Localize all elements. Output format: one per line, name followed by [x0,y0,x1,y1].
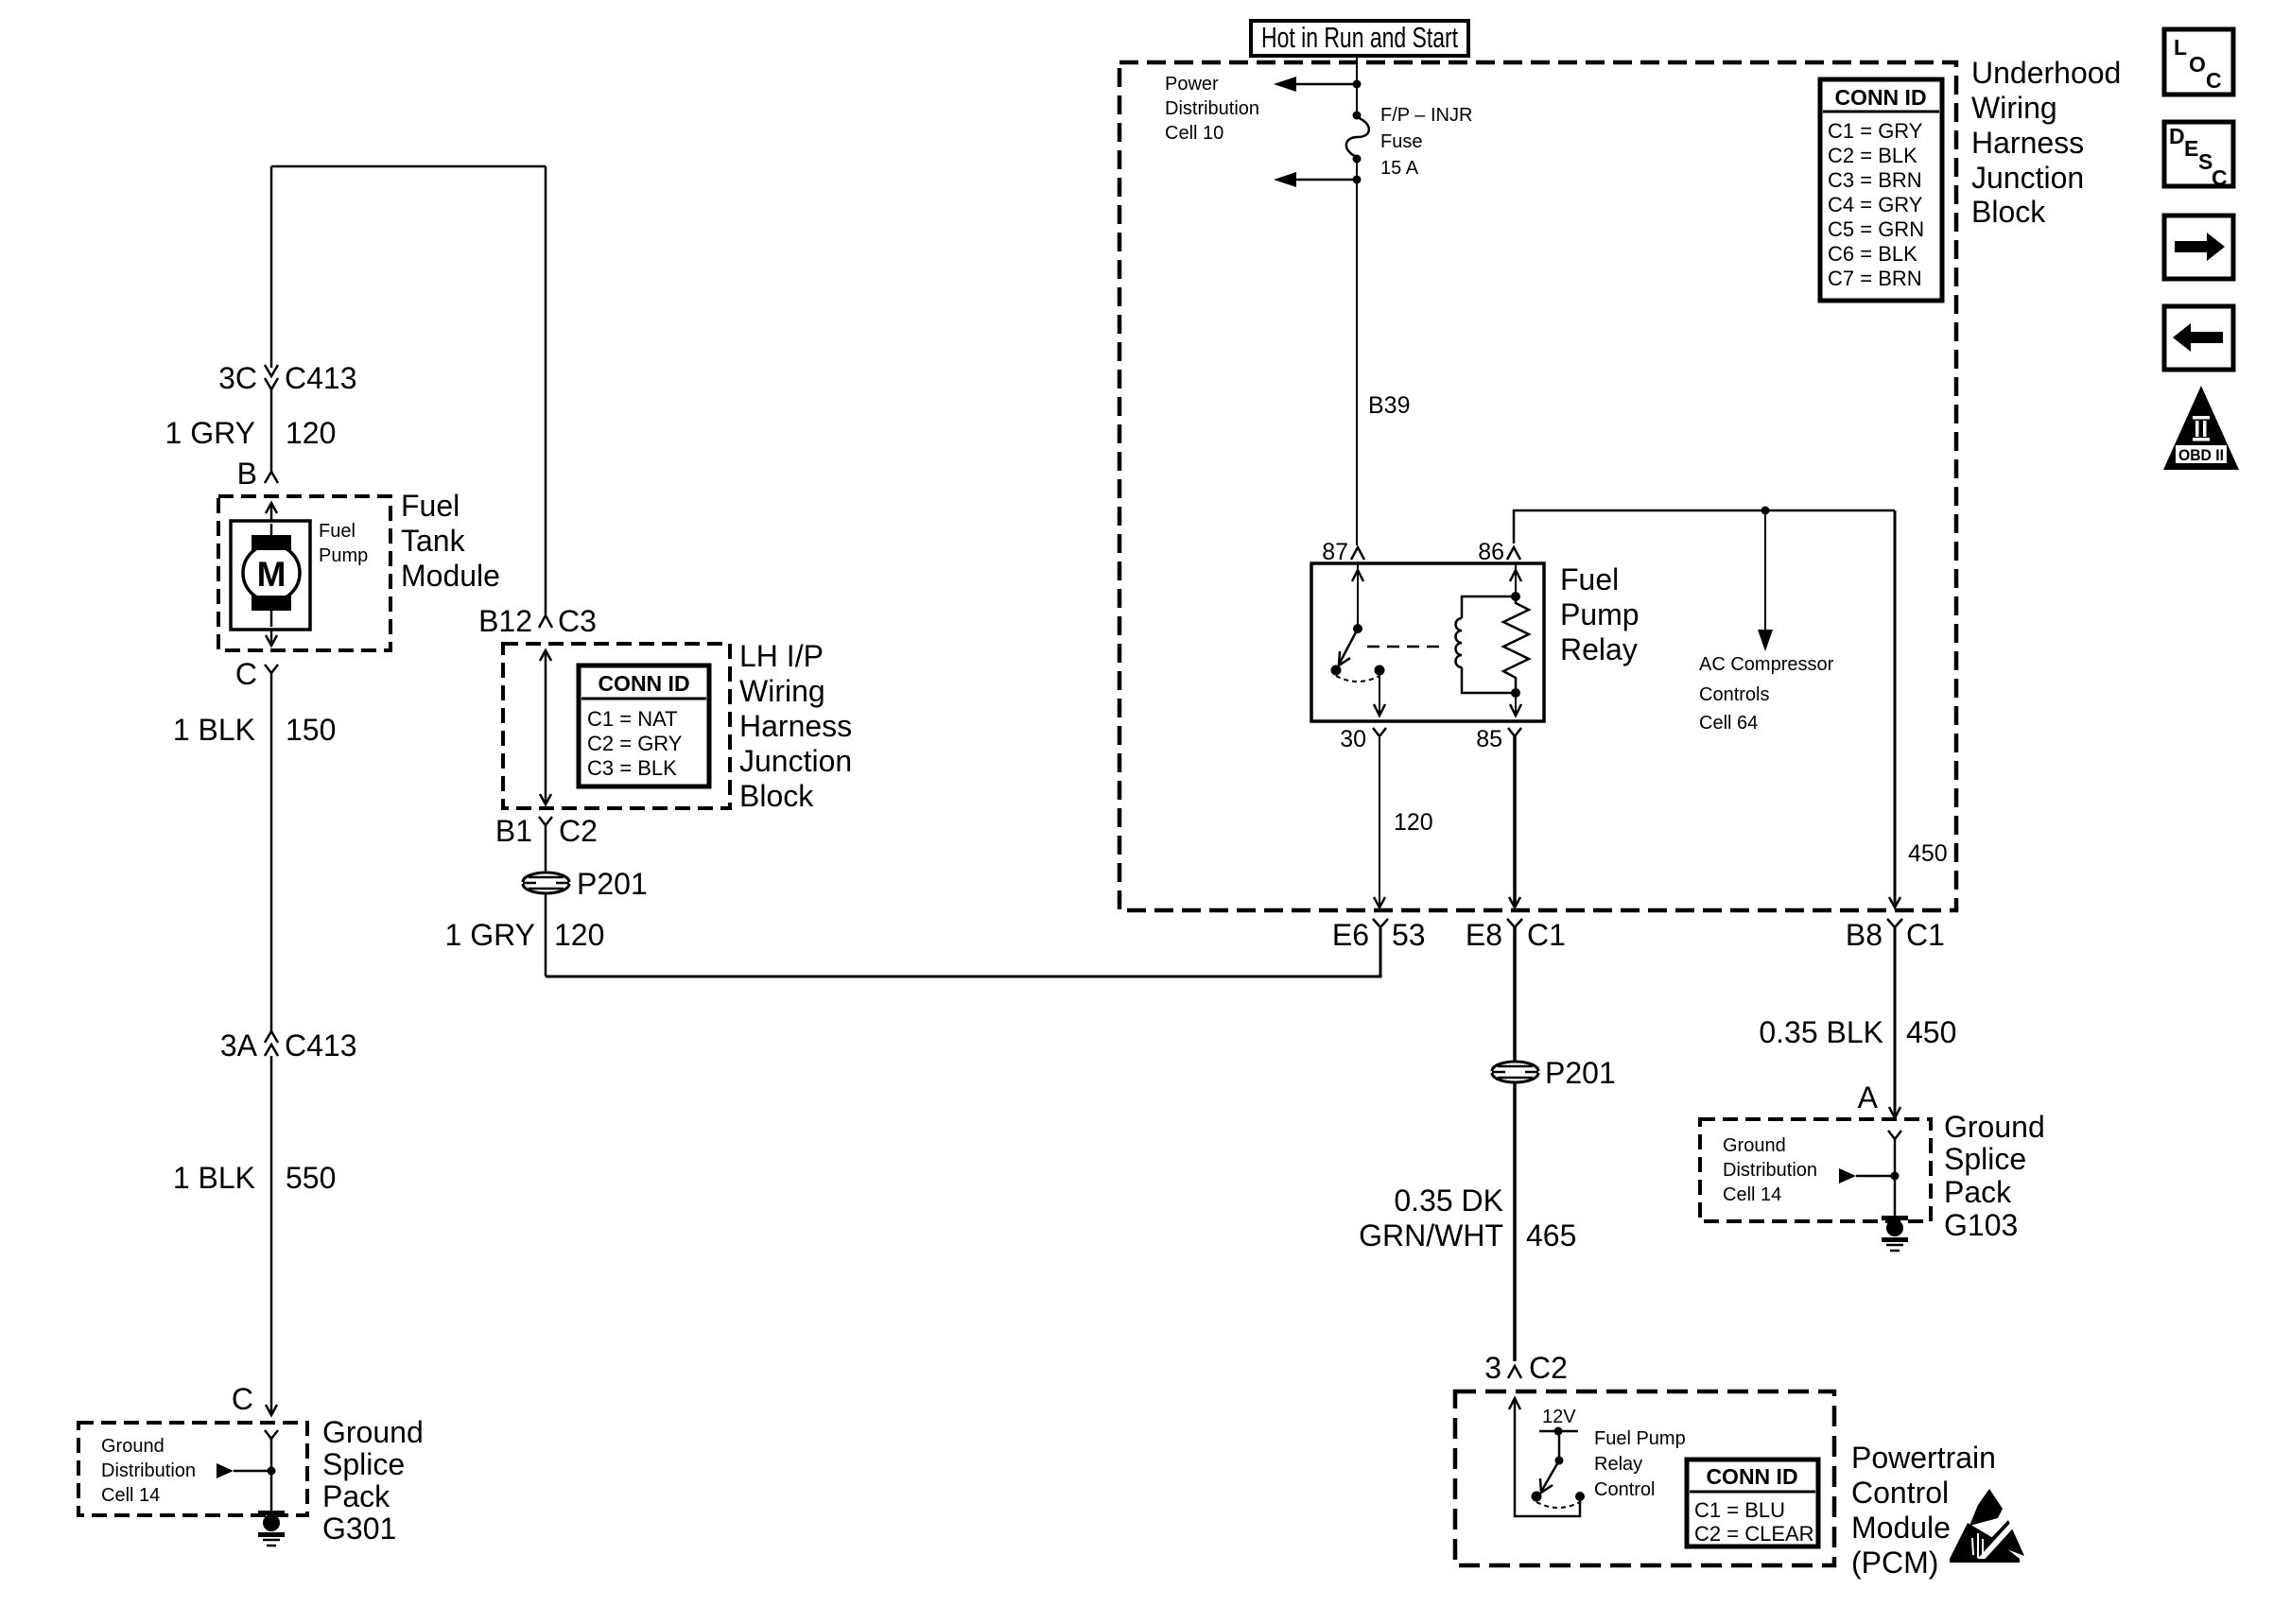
svg-text:G301: G301 [322,1512,396,1546]
svg-text:Module: Module [1851,1511,1951,1545]
svg-text:Fuse: Fuse [1380,131,1422,152]
svg-text:Control: Control [1594,1479,1655,1500]
svg-text:C2 = CLEAR: C2 = CLEAR [1694,1522,1814,1546]
connector E6 pin 53 [1332,918,1426,952]
svg-text:Pack: Pack [1944,1175,2012,1209]
relay switch arm [1331,629,1385,682]
svg-text:M: M [257,555,286,594]
svg-text:Block: Block [1971,195,2046,229]
svg-text:OBD II: OBD II [2178,446,2224,464]
wire: 1 BLK 550 run to ground [270,1056,273,1415]
svg-text:3: 3 [1484,1351,1501,1385]
svg-text:1 BLK: 1 BLK [173,713,255,747]
relay coil [1456,596,1517,693]
ground splice pack G301 dashed box [78,1423,307,1515]
svg-text:CONN ID: CONN ID [1706,1464,1797,1489]
power distribution arrow 1 [1274,77,1362,92]
svg-text:D: D [2169,124,2185,148]
label Powertrain Control Module (PCM) [1851,1441,1996,1580]
label Ground Distribution Cell 14 (G103) [1723,1135,1817,1205]
svg-text:Ground: Ground [1723,1135,1786,1156]
wire: feed from Hot box [1356,56,1358,115]
relay pin 30 internal arrow [1374,670,1385,716]
inline connector P201 (left) [523,867,648,901]
svg-text:Module: Module [401,559,500,593]
svg-text:C7 = BRN: C7 = BRN [1828,267,1922,290]
connector C2 pin B1 [495,814,598,848]
wire: relay 30 to E6 with 120 label [1374,736,1433,907]
label 1 BLK 150 [173,713,337,747]
terminal Y inside G301 [265,1430,278,1512]
svg-text:C413: C413 [285,1028,357,1063]
wire: jumper vertical to LH I/P junction block [545,166,547,615]
label 1 BLK 550 [173,1161,337,1195]
svg-text:Ground: Ground [1944,1110,2045,1144]
svg-text:3A: 3A [220,1028,258,1063]
label 0.35 BLK 450 [1759,1015,1956,1049]
wire: pump return arrow inside module [266,630,277,646]
connector pin 86 of relay [1478,539,1520,565]
svg-text:Fuel Pump: Fuel Pump [1594,1428,1686,1449]
wire: relay 86 to AC compressor branch and B8 [1514,507,1895,544]
svg-text:Fuel: Fuel [1560,562,1619,596]
svg-text:Cell 14: Cell 14 [1723,1184,1781,1205]
label Power Distribution Cell 10 [1165,74,1259,144]
connector B8 pin C1 [1846,918,1945,952]
svg-text:A: A [1858,1080,1879,1114]
label LH I/P Wiring Harness Junction Block [739,639,852,813]
svg-text:C2 = BLK: C2 = BLK [1828,144,1917,167]
label Underhood Wiring Harness Junction Block [1971,56,2121,229]
svg-text:C1 = NAT: C1 = NAT [587,707,678,731]
svg-text:87: 87 [1322,539,1348,565]
wire: 450 vertical to B8 [1889,510,1948,907]
svg-text:C: C [232,1382,253,1416]
svg-text:30: 30 [1340,726,1366,752]
svg-text:C2 = GRY: C2 = GRY [587,732,683,755]
svg-text:Cell 64: Cell 64 [1699,713,1758,734]
svg-text:Block: Block [739,779,814,813]
svg-text:C1: C1 [1906,918,1945,952]
svg-text:Junction: Junction [739,744,852,778]
wire: 1 GRY 120 vertical below P201 [545,894,547,976]
svg-text:C1 = GRY: C1 = GRY [1828,119,1923,143]
wire: left vertical fuel pump feed upper segment [270,166,273,368]
node C (ground splice pack terminal) [232,1382,277,1416]
svg-text:C2: C2 [559,814,598,848]
svg-text:GRN/WHT: GRN/WHT [1359,1218,1503,1253]
fuel pump relay box [1311,563,1544,721]
LOC icon [2164,29,2233,95]
CONN ID table (LH I/P) [579,665,709,786]
svg-text:C: C [2206,68,2222,93]
svg-text:Ground: Ground [101,1436,165,1457]
svg-text:Splice: Splice [1944,1142,2026,1176]
svg-text:LH I/P: LH I/P [739,639,824,673]
svg-text:C3 = BLK: C3 = BLK [587,756,677,780]
node C (fuel tank module terminal) [235,657,278,691]
svg-text:C1 = BLU: C1 = BLU [1694,1498,1785,1522]
wire: B8 to ground splice pack A [1889,927,1900,1118]
svg-text:Power: Power [1165,74,1219,95]
back arrow icon [2164,306,2233,370]
svg-text:150: 150 [286,713,336,747]
ESD sensitivity symbol [1950,1489,2024,1564]
svg-text:Harness: Harness [1971,126,2084,160]
svg-text:120: 120 [286,416,336,450]
Powertrain Control Module dashed box [1455,1391,1834,1565]
svg-text:15 A: 15 A [1380,158,1419,179]
terminal Y inside G103 [1888,1131,1901,1218]
svg-text:B39: B39 [1368,392,1410,419]
svg-text:120: 120 [554,918,604,952]
pointer to ground distribution (G301) [217,1463,276,1478]
svg-text:L: L [2174,35,2187,60]
forward arrow icon [2164,216,2233,279]
svg-text:Relay: Relay [1560,632,1638,666]
svg-text:Distribution: Distribution [1723,1160,1817,1181]
svg-text:450: 450 [1906,1015,1956,1049]
svg-text:1 GRY: 1 GRY [445,918,535,952]
svg-text:Ground: Ground [322,1415,424,1449]
svg-text:Distribution: Distribution [1165,98,1259,119]
inline connector P201 (right) [1492,1056,1616,1090]
label 0.35 DK GRN/WHT 465 [1359,1183,1576,1253]
svg-text:B8: B8 [1846,918,1883,952]
wire: relay 85 to E8 [1509,736,1520,907]
svg-text:AC Compressor: AC Compressor [1699,654,1834,675]
svg-text:C3 = BRN: C3 = BRN [1828,168,1922,192]
svg-text:3C: 3C [218,361,257,395]
OBD II icon [2163,386,2239,470]
svg-text:(PCM): (PCM) [1851,1546,1938,1580]
label Fuel Pump Relay [1560,562,1640,666]
label Fuel Pump [319,521,368,566]
svg-text:0.35 BLK: 0.35 BLK [1759,1015,1883,1049]
connector pin 85 of relay [1476,726,1521,752]
svg-text:Hot in Run and Start: Hot in Run and Start [1261,21,1458,54]
svg-text:53: 53 [1392,918,1426,952]
label F/P-INJR Fuse 15 A [1380,105,1472,179]
label 1 GRY 120 (lower) [445,918,605,952]
svg-text:Pack: Pack [322,1479,390,1513]
svg-text:E8: E8 [1466,918,1502,952]
svg-text:B12: B12 [478,604,532,638]
connector C413 pin 3A [220,1028,357,1063]
svg-text:12V: 12V [1542,1407,1576,1427]
DESC icon [2164,122,2233,190]
ground symbol G103 [1882,1216,1908,1251]
label Fuel Tank Module [401,489,500,593]
svg-text:Underhood: Underhood [1971,56,2121,90]
svg-text:Wiring: Wiring [739,674,825,708]
svg-text:Fuel: Fuel [401,489,460,523]
svg-text:Cell 14: Cell 14 [101,1485,160,1506]
svg-text:CONN ID: CONN ID [598,671,689,696]
svg-text:Pump: Pump [319,545,368,566]
svg-text:G103: G103 [1944,1208,2018,1242]
svg-text:1 GRY: 1 GRY [165,416,255,450]
power distribution arrow 2 [1274,172,1362,187]
svg-text:C6 = BLK: C6 = BLK [1828,242,1917,266]
svg-text:Pump: Pump [1560,597,1640,631]
Fuel Tank Module dashed box [218,496,390,650]
AC compressor controls arrow [1758,510,1773,651]
wire: B1 to P201 [545,825,547,872]
connector pin 87 of relay [1322,539,1364,565]
svg-text:Harness: Harness [739,709,852,743]
svg-text:C2: C2 [1529,1351,1568,1385]
node A (ground splice pack terminal) [1858,1080,1879,1114]
svg-text:C5 = GRN: C5 = GRN [1828,217,1924,241]
relay pin 87 internal arrow [1352,563,1363,633]
relay pin 85 internal arrow [1510,693,1521,716]
svg-text:Relay: Relay [1594,1454,1642,1475]
ground symbol G301 [258,1511,285,1546]
label 1 GRY 120 [165,416,337,450]
svg-text:465: 465 [1526,1218,1576,1253]
svg-text:Control: Control [1851,1476,1949,1510]
svg-text:C1: C1 [1527,918,1566,952]
wire: 1 GRY 120 horizontal run to E6 [546,927,1380,976]
svg-text:86: 86 [1478,539,1504,565]
ground splice pack G103 dashed box [1700,1119,1931,1221]
svg-text:F/P – INJR: F/P – INJR [1380,105,1472,126]
node B (fuel tank module terminal) [237,457,278,491]
label Ground Distribution Cell 14 (G301) [101,1436,196,1506]
fuse F/P-INJR 15 A [1346,112,1369,164]
svg-text:C: C [235,657,257,691]
connector C2 pin 3 (PCM) [1484,1351,1568,1385]
svg-text:C3: C3 [558,604,597,638]
svg-text:Cell 10: Cell 10 [1165,123,1223,144]
PCM internal driver wire with arrow [1509,1398,1585,1516]
svg-text:0.35 DK: 0.35 DK [1394,1183,1503,1218]
wire: E8 to P201 [1513,927,1517,1061]
svg-text:C4 = GRY: C4 = GRY [1828,193,1923,216]
wire: 1 GRY 120 segment to fuel tank module [270,389,273,472]
label Ground Splice Pack G103 [1944,1110,2045,1242]
svg-text:E: E [2184,136,2198,161]
fuel pump motor M [231,521,310,630]
CONN ID table (Underhood) [1820,79,1942,301]
wire: top horizontal jumper (fuel pump feed to junction block) [271,165,546,168]
svg-text:Junction: Junction [1971,161,2084,195]
connector pin 30 of relay [1340,726,1386,752]
label Fuel Pump Relay Control [1594,1428,1686,1500]
svg-text:Wiring: Wiring [1971,91,2057,125]
wire through LH I/P block with arrows [540,650,551,804]
label Ground Splice Pack G301 [322,1415,424,1546]
svg-text:C413: C413 [285,361,357,395]
relay linkage dashed line [1367,646,1446,648]
pointer to ground distribution (G103) [1839,1168,1900,1183]
svg-text:Powertrain: Powertrain [1851,1441,1996,1475]
Underhood wiring harness junction block dashed box [1119,62,1956,910]
relay pin 86 internal arrow [1510,563,1521,596]
svg-text:E6: E6 [1332,918,1369,952]
relay coil resistor [1503,592,1529,698]
wire: pump feed arrow inside module [266,503,277,521]
svg-text:Splice: Splice [322,1447,405,1481]
svg-text:120: 120 [1394,809,1433,836]
LH I/P junction block dashed box [503,644,730,808]
connector C3 pin B12 [478,604,597,638]
svg-text:Fuel: Fuel [319,521,356,542]
svg-text:550: 550 [286,1161,336,1195]
svg-text:85: 85 [1476,726,1502,752]
wire B39 fuse output [1357,159,1410,545]
svg-text:P201: P201 [577,867,648,901]
svg-text:450: 450 [1908,840,1948,867]
label AC Compressor Controls Cell 64 [1699,654,1834,734]
svg-text:B: B [237,457,257,491]
Hot in Run and Start box [1251,21,1468,56]
label 12V [1542,1407,1576,1427]
svg-text:O: O [2189,52,2206,77]
svg-text:1 BLK: 1 BLK [173,1161,255,1195]
connector E8 pin C1 [1466,918,1566,952]
CONN ID table (PCM) [1687,1460,1818,1546]
svg-text:Tank: Tank [401,524,466,558]
wire: 1 BLK 150 / 550 vertical run [270,673,273,1031]
svg-text:Distribution: Distribution [101,1460,196,1481]
svg-text:Controls: Controls [1699,684,1769,705]
connector C413 pin 3C [218,361,356,395]
svg-text:B1: B1 [495,814,532,848]
svg-text:P201: P201 [1545,1056,1616,1090]
svg-text:CONN ID: CONN ID [1834,85,1926,110]
PCM switch (fuel pump relay control) [1532,1427,1581,1509]
wire: 0.35 DK GRN/WHT 465 to PCM [1513,1083,1517,1361]
svg-text:C: C [2212,165,2228,190]
